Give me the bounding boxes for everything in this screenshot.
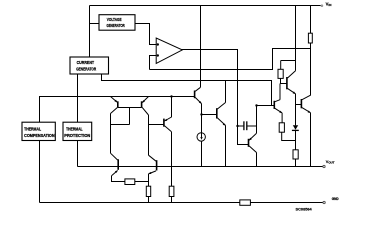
wire current source to output rail (201, 141, 203, 166)
transistor Q7 (NPN output) (300, 99, 302, 108)
wire Q9 collector to Vin rail (200, 6, 202, 88)
wire R4 bottom to diode chain (282, 132, 296, 140)
wire ground rail (40, 202, 241, 204)
resistor R4 (Q3 emitter) (279, 123, 284, 132)
wire Q10 emitter to R7 (112, 176, 125, 182)
wire Q7out base (296, 104, 302, 106)
capacitor C1 (238, 125, 244, 127)
wire VG left (90, 23, 100, 25)
svg-text:COMPENSATION: COMPENSATION (24, 133, 54, 138)
resistor R9 (series ground) (240, 200, 251, 205)
svg-text:GENERATOR: GENERATOR (107, 23, 126, 28)
resistor R6 (169, 186, 174, 196)
svg-text:THERMAL: THERMAL (66, 127, 83, 132)
wire bias bus (40, 97, 195, 123)
transistor Q1 (PNP mirror left) (117, 101, 119, 108)
wire VG right to op-amp + input (135, 24, 156, 45)
thermal compensation U4 (22, 122, 55, 140)
terminal VIN (321, 4, 324, 7)
node Q3 base / Q5 emitter (255, 104, 257, 106)
svg-text:VOUT: VOUT (326, 159, 335, 165)
resistor R1 (from Vin) (310, 6, 312, 34)
wire left drop to current generator (89, 6, 91, 58)
svg-text:THERMAL: THERMAL (24, 127, 41, 132)
svg-text:GND: GND (332, 197, 339, 201)
wire Vin top rail (90, 5, 321, 7)
wire feedback line to R1 bottom node (150, 49, 311, 70)
wire Q8 collector to R6 (171, 132, 173, 186)
wire Q1 collector down (110, 114, 112, 154)
current generator U3 (70, 57, 109, 74)
wire Q2 collector down (148, 115, 150, 155)
resistor R3 (QD base) (280, 61, 282, 70)
wire Q3 collector up to QD base node (279, 84, 281, 100)
wire Q5 collector to output rail (256, 153, 258, 167)
node op-amp - input (157, 54, 159, 56)
wire Q9 emitter to current source (201, 104, 203, 139)
node Q4 base tap (200, 113, 202, 115)
wire R7 to Q11 emitter leg (135, 181, 149, 183)
svg-text:VIN: VIN (326, 2, 332, 8)
wire Q3 emitter to R4 (281, 113, 283, 123)
wire diode chain (295, 130, 297, 149)
wire Q4 collector to current line (225, 81, 227, 103)
terminal VOUT (323, 165, 325, 167)
current source I1 (197, 133, 205, 141)
svg-text:SC08564: SC08564 (296, 207, 313, 212)
wire Q8 emitter to bus (171, 97, 173, 118)
wire QD base (281, 83, 287, 85)
resistor R5 (to Vout rail) (293, 150, 298, 159)
node C1 left (236, 125, 238, 127)
transistor Q10 (PNP sense left) (117, 159, 119, 170)
terminal GND (323, 201, 325, 203)
resistor R7 (horizontal) (125, 179, 135, 185)
transistor Q11 (NPN sense right) (156, 160, 158, 170)
node Q8 emitter / bus junction (170, 95, 172, 97)
transistor Q8 (PNP) (163, 119, 165, 127)
wire Q4 emitter to output rail (225, 125, 227, 166)
transistor Q3 (NPN SOA protection) (273, 101, 275, 109)
wire CG bottom-right current line to Q3 base (102, 74, 274, 106)
node op-amp + input (157, 43, 159, 45)
wire QD emitter chain (295, 94, 297, 126)
wire op-amp - input stub (150, 56, 157, 70)
wire Q11 emitter to R8 (148, 174, 150, 186)
wire op-amp output to Q5 base (182, 50, 249, 145)
wire R1 bottom to Q7out collector (310, 49, 312, 96)
svg-text:CURRENT: CURRENT (77, 60, 95, 65)
wire Q4 base (202, 114, 217, 116)
wire TC bottom to ground rail (39, 141, 41, 203)
diode D1 (293, 125, 298, 130)
wire TP bottom to output rail (77, 141, 79, 167)
wire Q8 base link (149, 124, 164, 126)
op-amp U1 (156, 38, 182, 63)
wire Q7out emitter to Vout (310, 113, 312, 167)
wire output rail Vout (78, 166, 323, 168)
transistor Q9 (NPN) (194, 91, 196, 99)
wire long vertical Vin to QD collector (295, 6, 297, 71)
transistor Q5 (PNP) (248, 139, 250, 147)
transistor Q2 (PNP mirror right) (141, 101, 143, 108)
wire Q5 emitter up to Q3 base node (256, 106, 258, 134)
transistor Q6 (NPN driver) (286, 77, 288, 89)
wire CG bottom-left to thermal protection (through bus) (77, 74, 79, 122)
wire base-collector tie (129, 108, 131, 125)
svg-text:GENERATOR: GENERATOR (76, 66, 97, 71)
wire Q1/Q2 base link (118, 107, 142, 109)
transistor Q4 (NPN) (216, 108, 218, 118)
resistor R8 (146, 186, 150, 196)
voltage generator U2 (99, 15, 135, 31)
svg-text:VOLTAGE: VOLTAGE (107, 17, 122, 22)
svg-text:PROTECTION: PROTECTION (64, 133, 90, 138)
thermal protection U5 (63, 122, 92, 140)
wire Q3 base line (257, 105, 275, 107)
